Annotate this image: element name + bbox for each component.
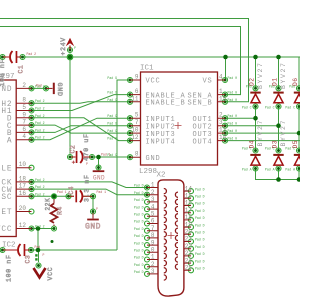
pad IC2 8 <box>29 101 34 106</box>
svg-text:12: 12 <box>131 134 139 141</box>
IC IC1 L298 box <box>130 65 227 177</box>
svg-text:9: 9 <box>135 74 139 81</box>
junction C2 GND node <box>96 155 101 160</box>
pad IC1 OUT1 <box>223 116 228 121</box>
svg-text:23: 23 <box>185 250 193 257</box>
diode D4 (col bottom) <box>249 119 265 165</box>
wire OUT3 <box>225 132 300 134</box>
svg-text:Pad 1: Pad 1 <box>101 153 111 157</box>
pad GND2 <box>91 209 96 214</box>
pad X2 pin24 open <box>189 261 194 266</box>
wire CLOCK to X2 pin1 <box>32 182 148 188</box>
wire C3 row <box>0 249 117 251</box>
svg-text:Pad D: Pad D <box>195 202 205 206</box>
wire C2 right to IC1 GND <box>92 156 130 158</box>
pad D5 anode <box>297 166 302 171</box>
wire diode column 2 <box>278 57 280 180</box>
svg-text:5: 5 <box>22 104 26 111</box>
svg-text:Pad C: Pad C <box>265 106 275 110</box>
pad IC1 VS <box>223 78 228 83</box>
pad D2 cathode <box>253 86 258 91</box>
svg-text:Pad 9: Pad 9 <box>107 122 117 126</box>
resistor R4 <box>45 198 64 226</box>
svg-text:7: 7 <box>22 119 26 126</box>
capacitor C4 <box>68 174 92 202</box>
svg-text:GND: GND <box>85 223 101 232</box>
svg-text:8: 8 <box>151 232 155 239</box>
svg-text:12: 12 <box>19 222 27 229</box>
pad +24V <box>68 48 73 53</box>
IC IC2 L297 box (clipped at left edge) <box>0 73 32 250</box>
svg-text:19: 19 <box>185 221 193 228</box>
svg-text:Pad D: Pad D <box>195 195 205 199</box>
svg-text:6: 6 <box>22 126 26 133</box>
svg-text:Pad C: Pad C <box>285 147 295 151</box>
svg-text:0: 0 <box>151 247 155 254</box>
svg-text:Pad 2: Pad 2 <box>35 114 45 118</box>
junction VCC pin12 <box>36 226 41 231</box>
svg-text:4: 4 <box>151 203 155 210</box>
svg-text:IC1: IC1 <box>140 65 154 73</box>
svg-text:6: 6 <box>151 218 155 225</box>
pad X2 pin4 open <box>145 207 150 212</box>
pad C2 left <box>68 155 73 160</box>
pad X2 pin15 open <box>189 196 194 201</box>
svg-text:Pad 2: Pad 2 <box>35 136 45 140</box>
svg-text:3.3 nF: 3.3 nF <box>84 174 91 202</box>
svg-text:Pad D: Pad D <box>195 259 205 263</box>
wire +24V rail <box>0 56 300 58</box>
pad X2 pin13 open <box>145 271 150 276</box>
diode D6 (col top) <box>292 77 304 102</box>
pad D4 cathode <box>253 148 258 153</box>
wires layer <box>0 19 300 263</box>
pad D1 cathode <box>276 86 281 91</box>
svg-text:BYV27: BYV27 <box>280 119 287 147</box>
svg-text:P: P <box>74 46 76 50</box>
svg-text:Pad D: Pad D <box>134 241 144 245</box>
pad IC2 17 <box>29 187 34 192</box>
wire IC2 GND pin <box>32 87 47 89</box>
wire A to INPUT1 <box>32 118 131 140</box>
pad X2 pin6 open <box>145 221 150 226</box>
svg-text:5: 5 <box>151 211 155 218</box>
svg-text:RESET: RESET <box>0 209 13 217</box>
pad IC2 pin20 open <box>29 209 34 214</box>
svg-text:13: 13 <box>219 127 227 134</box>
svg-text:22K: 22K <box>45 198 52 211</box>
supply VCC (down arrow) <box>34 254 55 280</box>
svg-text:+24V: +24V <box>60 37 67 55</box>
svg-text:7: 7 <box>135 119 139 126</box>
ground GND2 (C4 node) <box>85 213 101 232</box>
svg-text:10: 10 <box>131 127 139 134</box>
svg-text:Pad A: Pad A <box>285 168 295 172</box>
junction D col2 rail <box>276 55 281 60</box>
svg-text:8: 8 <box>135 151 139 158</box>
pad IC1 OUT2 <box>223 123 228 128</box>
svg-text:100 nF: 100 nF <box>6 254 13 282</box>
svg-text:Pad D: Pad D <box>195 238 205 242</box>
svg-text:Pad D: Pad D <box>134 263 144 267</box>
svg-text:9: 9 <box>151 239 155 246</box>
svg-text:2: 2 <box>219 112 223 119</box>
svg-text:Pad 9: Pad 9 <box>107 91 117 95</box>
svg-text:21: 21 <box>185 236 193 243</box>
junction D col1 rail <box>253 55 258 60</box>
svg-text:Pad: Pad <box>35 245 41 249</box>
svg-text:Pad 2: Pad 2 <box>35 121 45 125</box>
junction OUT3 col <box>297 131 302 136</box>
pad IC1 ENABLE_B <box>128 99 133 104</box>
svg-text:R4: R4 <box>57 206 64 215</box>
pad D6 anode <box>297 104 302 109</box>
wire C to INPUT3 <box>32 125 131 133</box>
X2 contacts right column <box>175 192 178 269</box>
wire C4 to GND2 <box>92 196 94 218</box>
svg-text:Pad D: Pad D <box>134 213 144 217</box>
svg-text:Pad 0: Pad 0 <box>228 98 238 102</box>
pad IC1 SEN_B <box>223 99 228 104</box>
svg-text:Pad 9: Pad 9 <box>107 76 117 80</box>
wire diode column 3 <box>298 57 300 180</box>
pads layer <box>0 48 302 277</box>
svg-text:18: 18 <box>185 214 193 221</box>
tiny pad name labels (red) <box>27 52 111 257</box>
svg-text:3: 3 <box>151 196 155 203</box>
svg-text:Pad D: Pad D <box>134 270 144 274</box>
junction stray <box>51 240 54 243</box>
svg-text:Pad: Pad <box>36 84 42 88</box>
pad D2 anode <box>253 104 258 109</box>
pad C2 right <box>90 155 95 160</box>
pad IC2 9 <box>29 115 34 120</box>
svg-text:18: 18 <box>19 175 27 182</box>
svg-text:1: 1 <box>151 254 155 261</box>
pad IC1 INPUT2 <box>128 123 133 128</box>
svg-text:4: 4 <box>219 74 223 81</box>
X2 contacts left column <box>164 189 167 281</box>
pad X2 pin3 open <box>145 199 150 204</box>
pad IC1 GND <box>128 155 133 160</box>
svg-text:Pad D: Pad D <box>134 234 144 238</box>
wire VCC net <box>39 80 130 250</box>
svg-text:Pad 0: Pad 0 <box>228 76 238 80</box>
svg-text:C3: C3 <box>25 255 32 264</box>
svg-text:Pad 2: Pad 2 <box>27 52 37 56</box>
X2 pin stubs right <box>184 191 191 270</box>
svg-text:BYV27: BYV27 <box>280 61 287 89</box>
svg-text:Pad D: Pad D <box>195 187 205 191</box>
svg-text:1: 1 <box>151 182 155 189</box>
wire VCC branch down <box>37 229 39 251</box>
svg-text:Pad 2: Pad 2 <box>35 99 45 103</box>
svg-text:7: 7 <box>151 225 155 232</box>
pad IC2 6 <box>29 130 34 135</box>
pad C4 right <box>91 194 96 199</box>
svg-text:Pad 2: Pad 2 <box>35 107 45 111</box>
svg-text:OSC: OSC <box>0 194 13 202</box>
svg-text:ENABLE_B: ENABLE_B <box>146 100 186 108</box>
svg-text:Pad D: Pad D <box>195 231 205 235</box>
svg-text:20: 20 <box>185 229 193 236</box>
svg-text:10: 10 <box>19 161 27 168</box>
svg-text:GND: GND <box>55 83 63 97</box>
pad IC2 16 <box>29 194 34 199</box>
svg-text:Pad: Pad <box>269 84 275 88</box>
X2 outline <box>158 180 184 296</box>
pad D3 cathode <box>276 148 281 153</box>
pad X2 pin5 open <box>145 214 150 219</box>
diode D3 (col bottom) <box>272 119 288 165</box>
svg-text:Pad D: Pad D <box>134 249 144 253</box>
pad X2 pin17 open <box>189 210 194 215</box>
svg-text:25: 25 <box>185 265 193 272</box>
pad IC2 7 <box>29 123 34 128</box>
wire CW to X2 pin2 <box>32 189 148 195</box>
pad X2 pin20 open <box>189 232 194 237</box>
svg-text:Pad D: Pad D <box>134 220 144 224</box>
wire VCC arrow stub <box>38 250 40 262</box>
pad cores <box>1 49 300 267</box>
svg-text:3: 3 <box>219 119 223 126</box>
diode D2 (col top) <box>249 61 265 102</box>
wire ENABLE_B net <box>32 102 131 103</box>
svg-text:INPUT4: INPUT4 <box>146 138 176 146</box>
pad IC1 SEN_A <box>223 92 228 97</box>
pad X2 pin8 open <box>145 235 150 240</box>
X2 pin numbers left <box>151 182 155 275</box>
svg-text:Pad D: Pad D <box>134 227 144 231</box>
pad X2 pin14 open <box>189 189 194 194</box>
svg-text:Pad D: Pad D <box>195 245 205 249</box>
svg-text:16: 16 <box>19 190 27 197</box>
X2 pin numbers right <box>185 185 193 271</box>
svg-text:22: 22 <box>185 243 193 250</box>
pad D5 cathode <box>297 148 302 153</box>
svg-text:Pad D: Pad D <box>134 184 144 188</box>
svg-text:Pad D: Pad D <box>134 191 144 195</box>
wire OSC row <box>32 195 94 197</box>
wire B to INPUT2 <box>32 126 131 133</box>
svg-text:9: 9 <box>22 111 26 118</box>
pad D4 anode <box>253 166 258 171</box>
wire C2 node to GND1 <box>98 157 100 170</box>
svg-text:Pad C: Pad C <box>242 147 252 151</box>
pad C3 right <box>29 248 34 253</box>
svg-text:15: 15 <box>185 193 193 200</box>
wire SEN_A rail <box>0 27 241 95</box>
svg-text:C1: C1 <box>18 65 25 74</box>
pad X2 pin1 <box>145 185 150 190</box>
svg-text:C4: C4 <box>68 186 75 195</box>
svg-text:Pad D: Pad D <box>134 256 144 260</box>
svg-text:16: 16 <box>185 200 193 207</box>
svg-text:Pad 0: Pad 0 <box>228 91 238 95</box>
pad C3 left <box>0 248 5 253</box>
svg-text:P: P <box>86 162 88 166</box>
wire +24V to C2 <box>69 57 71 154</box>
svg-text:Pad 9: Pad 9 <box>107 114 117 118</box>
svg-text:Pad 0: Pad 0 <box>228 137 238 141</box>
svg-text:GND: GND <box>146 155 161 163</box>
svg-text:Pad 0: Pad 0 <box>228 129 238 133</box>
svg-text:3: 3 <box>151 268 155 275</box>
svg-text:1: 1 <box>219 88 223 95</box>
junction R4 top <box>52 194 57 199</box>
pad IC1 ENABLE_A <box>128 92 133 97</box>
svg-text:Pad 2: Pad 2 <box>35 192 45 196</box>
junction OUT2 col <box>276 123 281 128</box>
svg-text:24: 24 <box>185 257 193 264</box>
svg-text:Pad: Pad <box>289 84 295 88</box>
svg-text:VCC: VCC <box>0 226 13 234</box>
svg-text:Pad D: Pad D <box>134 198 144 202</box>
svg-text:BYV27: BYV27 <box>257 119 264 147</box>
svg-text:4: 4 <box>22 133 26 140</box>
svg-text:Pad 2: Pad 2 <box>35 178 45 182</box>
wire VCC pin12 row <box>32 228 55 230</box>
svg-text:P: P <box>96 207 98 211</box>
wire OUT1 <box>225 117 256 119</box>
pad C4 left <box>66 194 71 199</box>
svg-text:Pad 1: Pad 1 <box>57 190 67 194</box>
svg-text:Pad D: Pad D <box>195 209 205 213</box>
svg-text:IC2: IC2 <box>2 242 16 250</box>
diode D1 (col top) <box>272 61 288 102</box>
capacitor C3 <box>3 244 32 282</box>
svg-text:2: 2 <box>22 82 26 89</box>
pad X2 pin22 open <box>189 246 194 251</box>
pad VCC arrow <box>36 263 41 268</box>
svg-text:VS: VS <box>202 78 212 86</box>
pad X2 pin9 open <box>145 243 150 248</box>
svg-text:Pad D: Pad D <box>134 205 144 209</box>
svg-text:20: 20 <box>19 205 27 212</box>
svg-text:15: 15 <box>219 95 227 102</box>
pad IC2 4 <box>29 137 34 142</box>
svg-text:Pad 9: Pad 9 <box>107 137 117 141</box>
pad D6 cathode <box>297 86 302 91</box>
svg-text:Pad 9: Pad 9 <box>107 98 117 102</box>
svg-text:BYV27: BYV27 <box>257 61 264 89</box>
pad X2 pin19 open <box>189 225 194 230</box>
junction GND rail col3 <box>297 177 302 182</box>
capacitor C1 <box>0 51 24 87</box>
svg-text:6: 6 <box>135 88 139 95</box>
pad C1 left <box>0 55 5 60</box>
pad X2 pin10 open <box>145 250 150 255</box>
svg-text:SEN_B: SEN_B <box>187 100 212 108</box>
svg-text:Pad 2: Pad 2 <box>35 128 45 132</box>
pad IC2 2 <box>29 86 34 91</box>
pad X2 pin25 open <box>189 268 194 273</box>
pad IC2 18 <box>29 179 34 184</box>
svg-text:2: 2 <box>151 189 155 196</box>
pad IC1 OUT3 <box>223 131 228 136</box>
svg-text:VCC: VCC <box>146 78 161 86</box>
svg-text:C2: C2 <box>70 145 77 154</box>
svg-text:Pad A: Pad A <box>265 168 275 172</box>
svg-text:Pad 9: Pad 9 <box>107 129 117 133</box>
wire OUT2 <box>225 125 279 127</box>
svg-text:Pad D: Pad D <box>195 216 205 220</box>
svg-text:Pad 1: Pad 1 <box>97 190 107 194</box>
supply +24V <box>60 37 74 60</box>
pad X2 pin12 open <box>145 264 150 269</box>
svg-text:5: 5 <box>135 112 139 119</box>
pad IC2 12 <box>29 226 34 231</box>
pad X2 pin7 open <box>145 228 150 233</box>
wire D to INPUT4 <box>32 118 131 141</box>
svg-text:Pad: Pad <box>246 84 252 88</box>
connector X2 DB25 <box>147 172 192 297</box>
svg-text:470 uF: 470 uF <box>83 133 90 161</box>
svg-text:100 nF: 100 nF <box>0 59 6 87</box>
pad X2 pin18 open <box>189 217 194 222</box>
pad IC2 5 <box>29 108 34 113</box>
pad IC2 pin10 open <box>29 165 34 170</box>
wire ENABLE_A net <box>32 95 131 111</box>
svg-text:Pad C: Pad C <box>285 106 295 110</box>
X2 pin stubs left <box>147 188 158 274</box>
pad IC1 INPUT3 <box>128 131 133 136</box>
svg-text:Pad 2: Pad 2 <box>35 185 45 189</box>
ground GND1 (C2 node) <box>93 170 105 181</box>
svg-text:Pad 2: Pad 2 <box>35 225 45 229</box>
svg-text:14: 14 <box>219 134 227 141</box>
svg-text:17: 17 <box>19 183 27 190</box>
pad IC1 VCC <box>128 78 133 83</box>
pad X2 pin21 open <box>189 239 194 244</box>
pad R4 top <box>52 194 57 199</box>
pad D3 anode <box>276 166 281 171</box>
wire VS drop <box>225 57 227 80</box>
junction GND rail col2 <box>276 177 281 182</box>
wire diode column 1 <box>256 57 301 180</box>
pad D1 anode <box>276 104 281 109</box>
pad IC1 INPUT1 <box>128 116 133 121</box>
pad X2 pin2 <box>145 192 150 197</box>
svg-text:11: 11 <box>131 95 139 102</box>
wire SEN_B top rail <box>0 19 249 102</box>
svg-text:17: 17 <box>185 207 193 214</box>
svg-text:Pad 0: Pad 0 <box>228 122 238 126</box>
pad R4 bottom <box>52 226 57 231</box>
junction OUT1 col <box>253 116 258 121</box>
tiny pad name labels (green) <box>35 46 295 274</box>
svg-text:8: 8 <box>22 97 26 104</box>
svg-text:Pad C: Pad C <box>265 147 275 151</box>
svg-text:14: 14 <box>185 185 193 192</box>
capacitor C2 <box>70 133 92 163</box>
diode D5 (col bottom) <box>292 140 304 165</box>
svg-text:2: 2 <box>151 261 155 268</box>
junction +24V <box>68 55 73 60</box>
pad X2 pin11 open <box>145 257 150 262</box>
svg-text:Pad C: Pad C <box>242 106 252 110</box>
pad IC1 INPUT4 <box>128 138 133 143</box>
pad IC1 OUT4 <box>223 138 228 143</box>
svg-text:OUT4: OUT4 <box>192 138 212 146</box>
wire OUT4 <box>225 140 300 142</box>
ground GND3 (IC2 pin2) <box>46 83 63 97</box>
svg-text:VCC: VCC <box>47 267 54 281</box>
pad X2 pin23 open <box>189 253 194 258</box>
junction C3 node <box>36 248 41 253</box>
pad GND1 <box>96 165 101 170</box>
X2 origin cross <box>168 232 175 239</box>
